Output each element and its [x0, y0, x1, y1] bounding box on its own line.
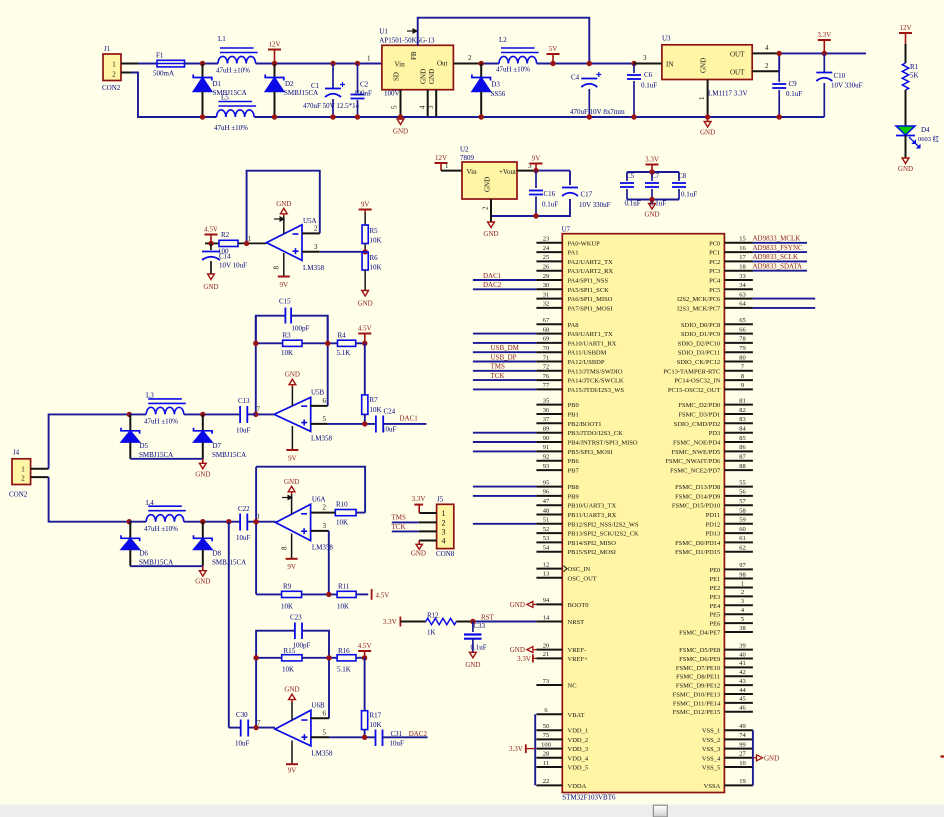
svg-text:OSC_IN: OSC_IN	[568, 566, 591, 573]
svg-text:C9: C9	[789, 80, 798, 88]
svg-text:SDIO_D3/PC11: SDIO_D3/PC11	[678, 350, 720, 357]
svg-text:CON8: CON8	[436, 550, 455, 558]
svg-text:14: 14	[543, 614, 550, 621]
svg-text:9V: 9V	[280, 281, 289, 289]
svg-text:31: 31	[543, 291, 550, 298]
svg-text:D2: D2	[285, 80, 294, 88]
svg-text:SDIO_CMD/PD2: SDIO_CMD/PD2	[674, 421, 721, 428]
svg-text:PA2/UART2_TX: PA2/UART2_TX	[568, 259, 614, 266]
svg-text:5V: 5V	[549, 45, 558, 53]
svg-text:22: 22	[543, 778, 550, 785]
svg-text:FSMC_D2/PD0: FSMC_D2/PD0	[678, 402, 720, 409]
svg-text:23: 23	[543, 236, 550, 243]
svg-text:J5: J5	[437, 496, 444, 504]
svg-text:3: 3	[427, 105, 435, 109]
svg-text:FSMC_D1/PD15: FSMC_D1/PD15	[675, 549, 720, 556]
svg-text:D5: D5	[140, 442, 149, 450]
svg-text:PA10/UART1_RX: PA10/UART1_RX	[568, 340, 617, 347]
svg-text:10K: 10K	[281, 349, 293, 357]
svg-text:84: 84	[739, 426, 746, 433]
svg-text:GND: GND	[465, 661, 480, 669]
svg-text:FSMC_D0/PD14: FSMC_D0/PD14	[675, 540, 721, 547]
svg-text:2: 2	[482, 206, 490, 210]
svg-text:R17: R17	[370, 712, 382, 720]
svg-text:FSMC_D4/PE7: FSMC_D4/PE7	[679, 630, 721, 637]
svg-text:FSMC_D8/PE11: FSMC_D8/PE11	[676, 674, 720, 681]
svg-text:98: 98	[739, 571, 746, 578]
svg-text:2: 2	[468, 54, 472, 62]
svg-text:C7: C7	[651, 172, 660, 180]
svg-text:C33: C33	[473, 622, 485, 630]
svg-text:10uF: 10uF	[236, 534, 251, 542]
svg-text:4.5V: 4.5V	[204, 226, 218, 234]
svg-text:U3: U3	[662, 35, 671, 43]
svg-text:FSMC_D13/PD8: FSMC_D13/PD8	[675, 484, 720, 491]
svg-text:GND: GND	[411, 550, 426, 558]
svg-text:SDIO_D1/PC9: SDIO_D1/PC9	[681, 331, 720, 338]
svg-text:3.3V: 3.3V	[383, 618, 397, 626]
svg-text:PA12/USBDP: PA12/USBDP	[568, 359, 605, 366]
svg-text:L4: L4	[146, 499, 154, 507]
svg-text:OUT: OUT	[730, 51, 745, 59]
svg-text:PA5/SPI1_SCK: PA5/SPI1_SCK	[568, 287, 610, 294]
svg-text:C10: C10	[834, 72, 846, 80]
svg-text:10V 330uF: 10V 330uF	[579, 201, 611, 209]
svg-text:3: 3	[741, 598, 744, 605]
svg-text:VDD_3: VDD_3	[568, 746, 589, 753]
svg-text:PC5: PC5	[709, 287, 720, 294]
svg-text:C24: C24	[384, 408, 396, 416]
svg-text:AD9833_FSYNC: AD9833_FSYNC	[753, 244, 804, 252]
svg-text:10K: 10K	[281, 603, 293, 611]
svg-text:LM1117 3.3V: LM1117 3.3V	[708, 90, 748, 98]
svg-text:VSS_5: VSS_5	[702, 765, 720, 772]
svg-text:CON2: CON2	[102, 84, 121, 92]
svg-text:4: 4	[765, 44, 769, 52]
svg-text:10uF: 10uF	[382, 426, 397, 434]
svg-text:PA8: PA8	[568, 322, 579, 329]
svg-text:61: 61	[739, 535, 746, 542]
svg-text:18: 18	[739, 264, 746, 271]
svg-text:FSMC_D6/PE9: FSMC_D6/PE9	[679, 656, 720, 663]
svg-text:PB4/JNTRST/SPI3_MISO: PB4/JNTRST/SPI3_MISO	[568, 440, 638, 447]
svg-text:+Vout: +Vout	[499, 168, 516, 176]
svg-text:D1: D1	[213, 80, 222, 88]
svg-text:OSC_OUT: OSC_OUT	[568, 575, 597, 582]
svg-text:65: 65	[739, 317, 746, 324]
svg-text:C22: C22	[238, 505, 250, 513]
svg-text:PD3: PD3	[709, 430, 721, 437]
svg-text:GND: GND	[420, 69, 428, 84]
svg-text:5: 5	[391, 105, 399, 109]
svg-text:500mA: 500mA	[153, 70, 174, 78]
svg-text:LM358: LM358	[311, 750, 333, 758]
svg-text:DAC1: DAC1	[483, 272, 502, 280]
svg-text:93: 93	[543, 463, 550, 470]
svg-text:FSMC_D3/PD1: FSMC_D3/PD1	[678, 412, 720, 419]
svg-text:9V: 9V	[288, 767, 297, 775]
svg-text:U1: U1	[379, 28, 388, 36]
svg-text:SD: SD	[393, 72, 401, 81]
svg-text:81: 81	[739, 397, 746, 404]
svg-text:PC0: PC0	[709, 240, 720, 247]
svg-text:10K: 10K	[282, 666, 294, 674]
svg-text:13: 13	[543, 571, 550, 578]
svg-text:7: 7	[257, 406, 261, 414]
svg-text:SMBJ15CA: SMBJ15CA	[213, 89, 247, 97]
svg-text:71: 71	[543, 354, 550, 361]
svg-text:SMBJ15CA: SMBJ15CA	[284, 89, 318, 97]
svg-text:Vin: Vin	[395, 61, 406, 69]
svg-text:17: 17	[739, 254, 746, 261]
svg-text:0.1uF: 0.1uF	[786, 90, 802, 98]
svg-text:20: 20	[543, 642, 550, 649]
svg-text:5: 5	[741, 616, 744, 623]
svg-text:GND: GND	[644, 211, 659, 219]
svg-text:12: 12	[543, 561, 550, 568]
svg-text:PE1: PE1	[709, 576, 720, 583]
svg-text:AD9833_SDATA: AD9833_SDATA	[753, 263, 803, 271]
svg-text:97: 97	[739, 562, 746, 569]
svg-text:0603 红: 0603 红	[918, 134, 940, 143]
svg-text:10K: 10K	[370, 406, 382, 414]
svg-text:FSMC_D11/PE14: FSMC_D11/PE14	[673, 700, 721, 707]
svg-text:GND: GND	[195, 470, 210, 478]
svg-text:PE4: PE4	[709, 603, 721, 610]
svg-text:6: 6	[323, 709, 327, 717]
svg-text:63: 63	[739, 291, 746, 298]
svg-text:8: 8	[273, 266, 281, 270]
svg-text:1: 1	[445, 162, 449, 170]
svg-text:FB: FB	[410, 51, 418, 60]
svg-text:92: 92	[543, 454, 550, 461]
svg-text:7: 7	[257, 719, 261, 727]
svg-text:GND: GND	[483, 230, 498, 238]
svg-text:85: 85	[739, 435, 746, 442]
svg-text:R3: R3	[283, 332, 292, 340]
svg-text:47uH ±10%: 47uH ±10%	[496, 66, 530, 74]
svg-text:STM32F103VBT6: STM32F103VBT6	[562, 794, 616, 802]
svg-text:VDD_2: VDD_2	[568, 737, 589, 744]
svg-text:VSS_2: VSS_2	[702, 737, 720, 744]
svg-text:PB2/BOOT1: PB2/BOOT1	[568, 421, 602, 428]
svg-text:GND: GND	[276, 200, 291, 208]
svg-text:72: 72	[543, 364, 550, 371]
svg-text:D8: D8	[213, 550, 222, 558]
svg-text:3.3V: 3.3V	[509, 745, 523, 753]
svg-text:91: 91	[543, 444, 550, 451]
svg-text:55: 55	[739, 479, 746, 486]
svg-text:SDIO_CK/PC12: SDIO_CK/PC12	[677, 359, 721, 366]
svg-text:0.1uF: 0.1uF	[650, 200, 666, 208]
svg-text:C16: C16	[544, 190, 556, 198]
svg-text:PB6: PB6	[568, 458, 580, 465]
svg-text:34: 34	[739, 282, 746, 289]
svg-text:49: 49	[739, 723, 746, 730]
svg-text:PA9/UART1_TX: PA9/UART1_TX	[568, 331, 614, 338]
svg-text:1: 1	[741, 580, 744, 587]
svg-text:GND: GND	[700, 58, 708, 73]
svg-text:60: 60	[739, 526, 746, 533]
svg-text:9V: 9V	[288, 455, 297, 463]
svg-text:R6: R6	[370, 254, 379, 262]
svg-text:44: 44	[739, 687, 746, 694]
svg-text:PA7/SPI1_MOSI: PA7/SPI1_MOSI	[568, 305, 613, 312]
svg-text:AD9833_SCLK: AD9833_SCLK	[753, 253, 799, 261]
svg-text:2: 2	[112, 71, 116, 79]
svg-text:OUT: OUT	[730, 69, 745, 77]
svg-text:99: 99	[739, 741, 746, 748]
svg-text:PE3: PE3	[709, 594, 720, 601]
svg-text:3.3V: 3.3V	[645, 156, 659, 164]
svg-text:SMBJ15CA: SMBJ15CA	[212, 451, 246, 459]
svg-text:NC: NC	[568, 683, 577, 690]
svg-text:PB0: PB0	[568, 402, 579, 409]
svg-text:7809: 7809	[460, 154, 475, 162]
svg-text:PC4: PC4	[709, 278, 721, 285]
svg-text:70: 70	[543, 345, 550, 352]
svg-text:4: 4	[419, 105, 427, 109]
svg-text:U6B: U6B	[311, 702, 325, 710]
svg-text:LM358: LM358	[311, 435, 333, 443]
svg-text:PC14-OSC32_IN: PC14-OSC32_IN	[674, 378, 720, 385]
svg-text:0.1uF: 0.1uF	[625, 200, 641, 208]
svg-text:5: 5	[323, 415, 327, 423]
svg-text:PD11: PD11	[706, 512, 721, 519]
svg-text:3.3V: 3.3V	[517, 655, 531, 663]
svg-text:VDD_4: VDD_4	[568, 755, 589, 762]
svg-text:3: 3	[323, 522, 327, 530]
svg-text:76: 76	[543, 373, 550, 380]
svg-text:10uF: 10uF	[235, 740, 250, 748]
svg-text:100pF: 100pF	[292, 325, 310, 333]
svg-text:PA13/JTMS/SWDIO: PA13/JTMS/SWDIO	[568, 368, 623, 375]
svg-text:47uH ±10%: 47uH ±10%	[216, 67, 250, 75]
svg-text:C17: C17	[581, 191, 593, 199]
svg-text:PB11/UART3_RX: PB11/UART3_RX	[568, 512, 617, 519]
svg-text:4.5V: 4.5V	[358, 325, 372, 333]
svg-text:48: 48	[543, 507, 550, 514]
svg-text:FSMC_D5/PE8: FSMC_D5/PE8	[679, 647, 720, 654]
svg-text:C23: C23	[290, 614, 302, 622]
svg-text:41: 41	[739, 660, 746, 667]
svg-text:PD12: PD12	[705, 521, 720, 528]
svg-text:PA6/SPI1_MISO: PA6/SPI1_MISO	[568, 296, 613, 303]
svg-text:2: 2	[442, 518, 446, 527]
svg-text:IN: IN	[666, 61, 673, 69]
svg-text:77: 77	[543, 382, 550, 389]
svg-text:100: 100	[541, 741, 551, 748]
svg-text:88: 88	[739, 463, 746, 470]
svg-text:87: 87	[739, 454, 746, 461]
svg-text:SMBJ15CA: SMBJ15CA	[139, 451, 173, 459]
svg-text:PE6: PE6	[709, 621, 721, 628]
svg-text:38: 38	[739, 625, 746, 632]
svg-text:10K: 10K	[370, 721, 382, 729]
svg-text:3.3V: 3.3V	[817, 31, 831, 39]
svg-text:FSMC_D15/PD10: FSMC_D15/PD10	[672, 503, 720, 510]
svg-text:VREF-: VREF-	[568, 647, 587, 654]
svg-text:PB13/SPI2_SCK/I2S2_CK: PB13/SPI2_SCK/I2S2_CK	[568, 531, 639, 538]
svg-text:50: 50	[543, 723, 550, 730]
svg-text:28: 28	[543, 751, 550, 758]
svg-text:GND: GND	[484, 177, 492, 192]
svg-text:PA11/USBDM: PA11/USBDM	[568, 350, 607, 357]
svg-text:PC15-OSC32_OUT: PC15-OSC32_OUT	[668, 387, 720, 394]
svg-text:R11: R11	[338, 583, 350, 591]
svg-text:USB_DP: USB_DP	[491, 353, 517, 361]
svg-text:3: 3	[643, 54, 647, 62]
svg-text:69: 69	[543, 336, 550, 343]
svg-text:C6: C6	[644, 71, 653, 79]
svg-text:10: 10	[739, 760, 746, 767]
svg-text:32: 32	[543, 301, 550, 308]
svg-text:5: 5	[323, 728, 327, 736]
svg-text:TCK: TCK	[392, 523, 406, 531]
svg-text:9: 9	[741, 382, 744, 389]
svg-text:R12: R12	[427, 612, 439, 620]
svg-text:PB10/UART3_TX: PB10/UART3_TX	[568, 503, 617, 510]
svg-text:Vin: Vin	[467, 168, 478, 176]
svg-text:FSMC_NOE/PD4: FSMC_NOE/PD4	[673, 440, 721, 447]
svg-text:PB7: PB7	[568, 468, 580, 475]
svg-text:L5: L5	[221, 94, 229, 102]
svg-text:39: 39	[739, 642, 746, 649]
svg-text:GND: GND	[510, 646, 525, 654]
svg-text:R1: R1	[910, 63, 919, 71]
svg-text:RST: RST	[481, 613, 495, 621]
svg-text:1: 1	[112, 61, 116, 69]
svg-text:C13: C13	[238, 397, 250, 405]
svg-text:R4: R4	[338, 332, 347, 340]
svg-text:PA15/JTDI/I2S3_WS: PA15/JTDI/I2S3_WS	[568, 387, 625, 394]
svg-text:54: 54	[543, 545, 550, 552]
svg-text:U2: U2	[460, 146, 469, 154]
svg-text:PB1: PB1	[568, 412, 579, 419]
svg-text:5.1K: 5.1K	[337, 349, 351, 357]
svg-text:DAC2: DAC2	[483, 281, 502, 289]
svg-text:3: 3	[314, 243, 318, 251]
svg-text:10K: 10K	[370, 237, 382, 245]
svg-text:C5: C5	[626, 172, 635, 180]
svg-text:15: 15	[739, 236, 746, 243]
svg-text:2: 2	[765, 62, 769, 70]
svg-text:52: 52	[543, 526, 550, 533]
svg-text:GND: GND	[284, 478, 299, 486]
svg-text:1: 1	[698, 96, 706, 100]
svg-text:10V 330uF: 10V 330uF	[831, 82, 863, 90]
svg-text:10K: 10K	[370, 264, 382, 272]
svg-text:LM358: LM358	[303, 264, 325, 272]
svg-text:47: 47	[543, 498, 550, 505]
svg-text:74: 74	[739, 732, 746, 739]
svg-text:9V: 9V	[532, 155, 541, 163]
svg-text:53: 53	[543, 535, 550, 542]
svg-text:NRST: NRST	[568, 619, 585, 626]
svg-text:82: 82	[739, 407, 746, 414]
svg-text:SS56: SS56	[491, 90, 506, 98]
svg-text:PB12/SPI2_NSS/I2S2_WS: PB12/SPI2_NSS/I2S2_WS	[568, 521, 640, 528]
svg-text:PA1: PA1	[568, 250, 579, 257]
svg-text:45: 45	[739, 696, 746, 703]
svg-text:5K: 5K	[910, 72, 919, 80]
svg-text:FSMC_NWE/PD5: FSMC_NWE/PD5	[672, 449, 721, 456]
svg-text:51: 51	[543, 517, 550, 524]
svg-text:64: 64	[739, 301, 746, 308]
svg-text:PB14/SPI2_MISO: PB14/SPI2_MISO	[568, 540, 617, 547]
svg-text:89: 89	[543, 426, 550, 433]
svg-text:GND: GND	[285, 371, 300, 379]
svg-text:100nF: 100nF	[354, 90, 372, 98]
svg-text:10uF: 10uF	[390, 740, 405, 748]
svg-text:D6: D6	[140, 550, 149, 558]
svg-text:78: 78	[739, 336, 746, 343]
svg-text:62: 62	[739, 545, 746, 552]
svg-text:R2: R2	[221, 231, 230, 239]
svg-text:67: 67	[543, 317, 550, 324]
svg-text:1: 1	[367, 55, 371, 63]
svg-text:36: 36	[543, 407, 550, 414]
svg-text:470uF 50V 12.5*14: 470uF 50V 12.5*14	[303, 102, 360, 110]
svg-text:PC2: PC2	[709, 259, 720, 266]
svg-text:FSMC_D14/PD9: FSMC_D14/PD9	[675, 493, 720, 500]
svg-text:100pF: 100pF	[293, 642, 311, 650]
svg-text:C2: C2	[360, 81, 369, 89]
svg-text:VDDA: VDDA	[568, 783, 587, 790]
svg-text:TMS: TMS	[491, 363, 506, 371]
svg-text:L2: L2	[499, 36, 507, 44]
svg-text:C15: C15	[279, 298, 291, 306]
svg-text:37: 37	[543, 416, 550, 423]
svg-text:C8: C8	[678, 172, 687, 180]
svg-text:0.1uF: 0.1uF	[641, 82, 657, 90]
svg-text:PD13: PD13	[705, 531, 720, 538]
svg-text:46: 46	[739, 705, 746, 712]
svg-text:D7: D7	[213, 442, 222, 450]
svg-text:L1: L1	[218, 35, 226, 43]
svg-text:FSMC_D10/PE13: FSMC_D10/PE13	[673, 692, 721, 699]
svg-text:PA3/UART2_RX: PA3/UART2_RX	[568, 268, 614, 275]
svg-text:GND: GND	[284, 686, 299, 694]
svg-text:PE5: PE5	[709, 612, 720, 619]
svg-text:90: 90	[543, 435, 550, 442]
svg-text:C1: C1	[311, 82, 320, 90]
svg-text:0.1uF: 0.1uF	[542, 201, 558, 209]
svg-text:94: 94	[543, 597, 550, 604]
svg-text:GND: GND	[393, 128, 408, 136]
svg-text:25: 25	[543, 254, 550, 261]
svg-text:C30: C30	[236, 711, 248, 719]
svg-text:12V: 12V	[899, 24, 911, 32]
svg-text:86: 86	[739, 444, 746, 451]
svg-text:J1: J1	[104, 45, 111, 53]
svg-text:9V: 9V	[361, 201, 370, 209]
svg-text:10uF: 10uF	[236, 427, 251, 435]
svg-text:3.3V: 3.3V	[412, 495, 426, 503]
svg-text:TCK: TCK	[491, 372, 505, 380]
svg-text:I2S2_MCK/PC6: I2S2_MCK/PC6	[677, 296, 721, 303]
svg-text:29: 29	[543, 273, 550, 280]
svg-text:3: 3	[442, 527, 446, 536]
svg-text:68: 68	[543, 326, 550, 333]
svg-text:96: 96	[543, 489, 550, 496]
svg-text:27: 27	[739, 751, 746, 758]
svg-text:VREF+: VREF+	[568, 656, 589, 663]
svg-text:0.1uF: 0.1uF	[681, 191, 697, 199]
svg-text:75: 75	[543, 732, 550, 739]
svg-text:VDD_1: VDD_1	[568, 728, 589, 735]
svg-text:VSSA: VSSA	[704, 783, 721, 790]
